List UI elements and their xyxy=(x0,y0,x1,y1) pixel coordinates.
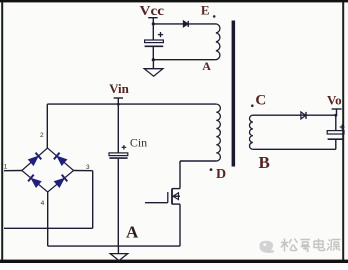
svg-text:B: B xyxy=(259,153,270,172)
svg-text:A: A xyxy=(202,59,211,73)
svg-text:Cin: Cin xyxy=(130,136,147,150)
svg-text:Vcc: Vcc xyxy=(140,4,165,19)
svg-text:3: 3 xyxy=(86,164,90,171)
svg-text:Vo: Vo xyxy=(327,92,342,107)
svg-text:4: 4 xyxy=(41,200,45,207)
svg-text:Vin: Vin xyxy=(109,81,130,96)
svg-text:2: 2 xyxy=(40,132,44,139)
svg-text:C: C xyxy=(255,92,266,108)
svg-text:A: A xyxy=(126,222,139,241)
svg-text:D: D xyxy=(216,167,226,182)
svg-text:1: 1 xyxy=(4,163,8,170)
svg-text:E: E xyxy=(201,2,210,17)
